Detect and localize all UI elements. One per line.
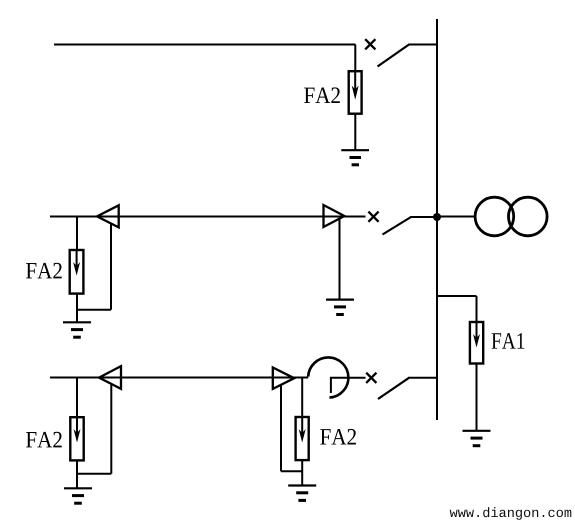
wire bottom-left counterpoise branch: [77, 473, 111, 475]
surge arrester FA1: arrow: [473, 322, 480, 348]
surge arrester FA1: body: [470, 322, 483, 364]
transformer (two windings): [475, 197, 547, 236]
wire FA1 drop: [476, 296, 478, 323]
wire top arrester to ground: [354, 114, 356, 150]
wire FA1 branch horizontal: [437, 295, 477, 297]
wire bottom-mid drop to arrester: [301, 378, 303, 419]
wire middle-left arrowhead drop: [110, 224, 112, 310]
ground middle-right: [326, 300, 354, 315]
arrowhead left bottom feeder: [99, 366, 121, 389]
arrowhead right bottom feeder: [273, 368, 294, 389]
surge arrester FA2 middle-left: body: [70, 250, 84, 294]
wire middle-right arrowhead drop: [339, 219, 341, 300]
open point X top feeder: [365, 39, 375, 49]
wire bottom-mid counterpoise branch: [281, 470, 302, 472]
wire middle feeder left arrester drop: [76, 217, 78, 252]
wire busbar to transformer: [437, 216, 476, 218]
surge arrester FA2 top: arrow: [352, 71, 359, 100]
junction dot busbar: [433, 213, 441, 221]
wire bottom-mid arrowhead drop: [280, 385, 282, 472]
wire FA1 to ground: [476, 364, 478, 431]
label FA2 bottom-mid: [320, 429, 356, 445]
wire top switch stub: [408, 44, 437, 46]
arrowhead right middle feeder: [324, 205, 345, 227]
wire middle-left counterpoise branch: [77, 309, 111, 311]
wire middle feeder line: [50, 216, 366, 218]
wire top feeder line: [54, 44, 356, 46]
ground bottom-left: [64, 488, 92, 503]
surge arrester FA2 top: body: [349, 71, 362, 114]
wire bottom-left arrowhead drop: [110, 385, 112, 474]
wire bottom feeder line: [50, 377, 308, 379]
arrowhead left (incoming wave) middle feeder: [97, 205, 119, 227]
wire bottom-left arrester to ground: [76, 460, 78, 487]
ground top feeder: [341, 150, 369, 165]
disconnect switch bottom (blade): [378, 378, 409, 399]
surge arrester FA2 middle-left: arrow: [73, 250, 80, 276]
surge arrester FA2 bottom-left: body: [70, 417, 83, 460]
wire bottom-left arrester drop: [76, 378, 78, 419]
wire top arrester drop: [354, 45, 356, 73]
wire middle switch stub: [410, 216, 437, 218]
label FA1: [492, 333, 525, 349]
watermark www.diangon.com: [450, 507, 572, 520]
cable loop (coil): [308, 357, 348, 397]
ground bottom-mid: [288, 486, 316, 501]
disconnect switch middle (blade): [383, 217, 412, 235]
wire middle-left arrester to ground: [76, 294, 78, 322]
open point X middle feeder: [368, 212, 378, 222]
surge arrester FA2 bottom-mid: body: [296, 417, 309, 460]
label FA2 bottom-left: [26, 432, 62, 448]
ground middle-left: [63, 322, 91, 337]
ground FA1: [463, 431, 491, 446]
label FA2 middle-left: [26, 263, 62, 279]
disconnect switch top (blade): [378, 45, 410, 67]
open point X bottom feeder: [366, 373, 376, 383]
wire cable loop stub: [331, 378, 366, 393]
surge arrester FA2 bottom-left: arrow: [74, 417, 81, 442]
busbar: [436, 19, 438, 420]
surge arrester FA2 bottom-mid: arrow: [299, 417, 306, 443]
wire bottom switch stub: [408, 377, 437, 379]
label FA2 top: [304, 87, 340, 103]
wire bottom-mid arrester to ground: [301, 460, 303, 485]
